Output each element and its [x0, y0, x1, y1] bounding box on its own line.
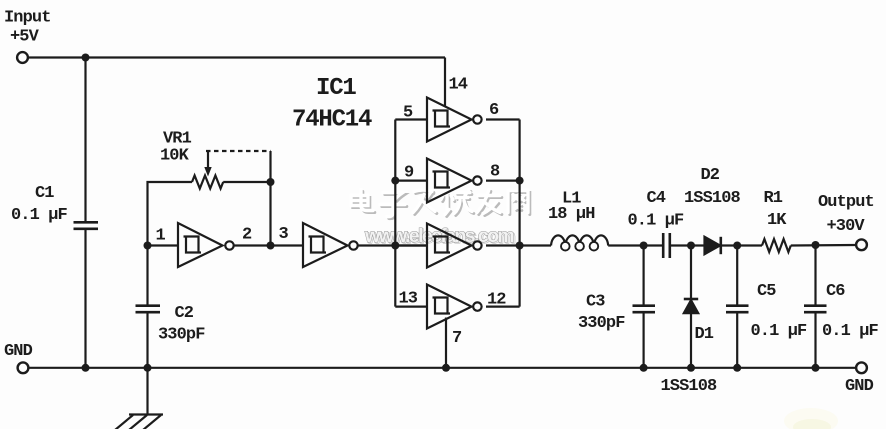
svg-text:D2: D2: [701, 166, 720, 185]
terminal: gnd right: [856, 362, 867, 373]
wire: row1 stubs: [395, 118, 427, 120]
wire: bank to L1: [520, 244, 551, 246]
node: pin7 gnd: [442, 364, 450, 372]
wire: wiper arrow stem: [207, 151, 209, 169]
wire: C3 branch: [642, 246, 644, 305]
wire: row3 stubs: [395, 244, 427, 246]
terminal: output: [856, 239, 867, 250]
svg-text:GND: GND: [4, 342, 33, 361]
svg-text:1K: 1K: [767, 211, 787, 230]
resistor R1: [762, 239, 791, 252]
node: C1 gnd: [82, 364, 90, 372]
svg-text:1SS108: 1SS108: [684, 189, 741, 208]
svg-text:R1: R1: [764, 189, 783, 208]
svg-text:2: 2: [242, 226, 252, 245]
wire: pin7 drop: [445, 318, 447, 368]
node: VR1 right junction: [267, 178, 275, 186]
svg-text:330pF: 330pF: [158, 326, 205, 345]
svg-text:C4: C4: [647, 189, 666, 208]
wire: R1 to output: [791, 244, 856, 247]
node: D1 gnd: [687, 364, 695, 372]
svg-text:18 µH: 18 µH: [548, 205, 595, 224]
resistor VR1: [192, 176, 223, 189]
svg-text:D1: D1: [695, 325, 714, 344]
svg-text:0.1 µF: 0.1 µF: [11, 206, 68, 225]
node: C6 gnd: [812, 364, 820, 372]
terminal: gnd left: [18, 362, 29, 373]
svg-text:IC1: IC1: [316, 75, 356, 102]
capacitor C3: [633, 304, 656, 307]
wire: pin1 stub: [148, 244, 179, 246]
svg-text:14: 14: [449, 76, 468, 95]
svg-text:+5V: +5V: [10, 28, 40, 47]
svg-text:74HC14: 74HC14: [292, 107, 372, 134]
wire: L1 to C4: [608, 244, 662, 246]
node: +5V/C1 junction: [82, 54, 90, 62]
node: D1 top: [687, 242, 695, 250]
wire: C2 branch: [146, 246, 148, 305]
svg-text:1SS108: 1SS108: [661, 377, 718, 396]
wire: VR1 right vertical: [269, 151, 271, 246]
wire: row4 stubs: [395, 306, 427, 308]
inductor L1: [551, 235, 608, 250]
op-amp U1c inverter pins5-6: [427, 98, 482, 142]
svg-text:9: 9: [404, 164, 414, 183]
op-amp U1e inverter pins11-10: [427, 224, 482, 268]
node: bank left mid1: [391, 177, 399, 185]
svg-text:C5: C5: [757, 282, 776, 301]
wire: inv2 out to bank: [358, 244, 427, 246]
terminal: input: [17, 52, 28, 63]
node: C3 top: [640, 242, 648, 250]
svg-text:0.1 µF: 0.1 µF: [628, 212, 685, 231]
faint yellow smudge bottom right: [784, 408, 838, 429]
node: C2 gnd: [144, 364, 152, 372]
wire: VR1 right leg: [223, 181, 270, 183]
wire: C1 branch vertical: [84, 58, 86, 222]
node: C3 gnd: [640, 364, 648, 372]
wire: D2 to R1: [721, 244, 762, 246]
wire: C5 branch: [736, 246, 738, 305]
node: pin2-3 junction: [267, 242, 275, 250]
node: C6 top: [812, 241, 820, 249]
svg-text:13: 13: [399, 290, 418, 309]
svg-text:1: 1: [156, 227, 166, 246]
wire: C4 to D2: [671, 244, 705, 246]
node: pin1 junction: [144, 242, 152, 250]
capacitor C6: [804, 304, 827, 307]
capacitor C5: [726, 304, 749, 307]
svg-text:C1: C1: [35, 184, 54, 203]
capacitor C4: [662, 233, 665, 258]
op-amp U1b inverter pins3-4: [303, 223, 358, 267]
node: C5 gnd: [733, 364, 741, 372]
wire: bank right rail: [518, 120, 520, 307]
svg-text:8: 8: [490, 163, 500, 182]
ground rail: [29, 367, 856, 369]
node: bank right mid1: [516, 177, 524, 185]
watermark 电子发烧友网: [351, 190, 530, 249]
svg-text:C2: C2: [175, 304, 194, 323]
capacitor C1: [74, 221, 99, 224]
wire: row2 stubs: [395, 180, 427, 182]
svg-text:0.1 µF: 0.1 µF: [751, 322, 808, 341]
svg-text:5: 5: [403, 104, 413, 123]
node: C5 top: [733, 242, 741, 250]
diode D1 branch: [690, 246, 692, 299]
svg-text:0.1 µF: 0.1 µF: [822, 322, 879, 341]
wire: pin14 drop: [444, 58, 446, 108]
wiper arrow head: [204, 167, 211, 177]
svg-text:C3: C3: [586, 293, 605, 312]
svg-text:Output: Output: [818, 193, 874, 212]
svg-text:6: 6: [489, 101, 499, 120]
svg-text:330pF: 330pF: [578, 314, 625, 333]
svg-text:7: 7: [452, 329, 462, 348]
op-amp U1f inverter pins13-12: [427, 285, 482, 329]
svg-text:GND: GND: [845, 377, 874, 396]
diode D2: [705, 237, 721, 254]
wire: pin2 to pin3: [234, 244, 303, 246]
wire: +5V top rail: [29, 56, 446, 58]
wire: C6 branch: [814, 245, 816, 305]
op-amp U1d inverter pins9-8: [427, 159, 482, 203]
svg-text:C6: C6: [826, 282, 845, 301]
op-amp U1a inverter pins1-2: [178, 223, 234, 267]
wire: VR1 left leg: [148, 182, 193, 246]
svg-text:12: 12: [487, 291, 506, 310]
wire: bank left rail: [394, 120, 396, 307]
svg-text:10K: 10K: [160, 147, 190, 166]
node: bank left mid2: [391, 242, 399, 250]
wire: VR1 wiper dashed: [206, 150, 271, 152]
svg-text:+30V: +30V: [827, 217, 866, 236]
capacitor C2: [136, 304, 161, 307]
svg-text:3: 3: [279, 225, 289, 244]
ground symbol: [115, 368, 163, 429]
node: bank right mid2: [516, 242, 524, 250]
svg-text:Input: Input: [4, 9, 51, 28]
